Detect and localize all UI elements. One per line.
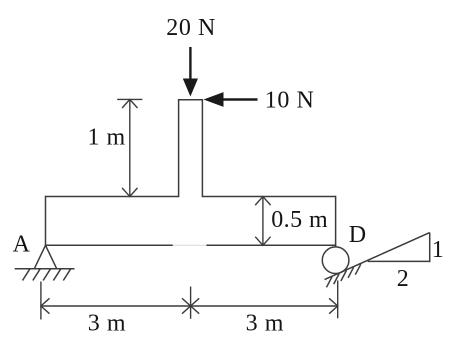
wire beam left edge — [45, 196, 47, 246]
incline hatching at D — [327, 277, 333, 288]
svg-text:1: 1 — [432, 237, 444, 263]
dimension bottom 3 m + 3 m — [41, 281, 338, 320]
wire post right edge — [201, 100, 203, 197]
inclined surface at D — [325, 233, 430, 288]
dimension line — [41, 305, 338, 307]
svg-text:A: A — [13, 232, 31, 258]
svg-text:D: D — [349, 222, 366, 248]
extension line left — [40, 282, 42, 320]
ground hatching at A — [23, 269, 31, 281]
extension line middle — [190, 287, 192, 319]
arrowhead right outward — [329, 298, 338, 313]
arrowhead mid right-pointing — [182, 298, 191, 313]
svg-text:2: 2 — [397, 266, 409, 292]
wire post left edge — [178, 100, 180, 197]
arrowhead left outward — [41, 298, 50, 313]
dimension 1 m — [117, 99, 142, 196]
dimension 0.5 m — [255, 197, 270, 246]
support A pin — [15, 245, 75, 280]
force arrow 10 N — [204, 88, 315, 114]
force arrow 20 N — [166, 15, 216, 96]
wire beam bottom right segment — [206, 244, 336, 246]
wire post top edge — [178, 99, 203, 101]
support D roller — [322, 247, 349, 274]
wire beam bottom faint segment — [173, 244, 207, 246]
ground line at A — [15, 268, 75, 270]
svg-text:20 N: 20 N — [166, 15, 216, 41]
extension line right — [337, 281, 339, 319]
wire beam right edge — [335, 196, 337, 247]
svg-text:3 m: 3 m — [88, 310, 126, 336]
svg-text:1 m: 1 m — [88, 124, 126, 150]
wire beam bottom left segment — [45, 244, 173, 246]
svg-text:3 m: 3 m — [246, 310, 284, 336]
arrowhead mid left-pointing — [191, 298, 200, 313]
svg-text:0.5 m: 0.5 m — [271, 207, 328, 233]
slope indicator triangle 1:2 — [368, 233, 431, 263]
wire beam top-right segment — [202, 196, 335, 198]
svg-text:10 N: 10 N — [265, 88, 315, 114]
wire beam top-left segment — [46, 196, 179, 198]
